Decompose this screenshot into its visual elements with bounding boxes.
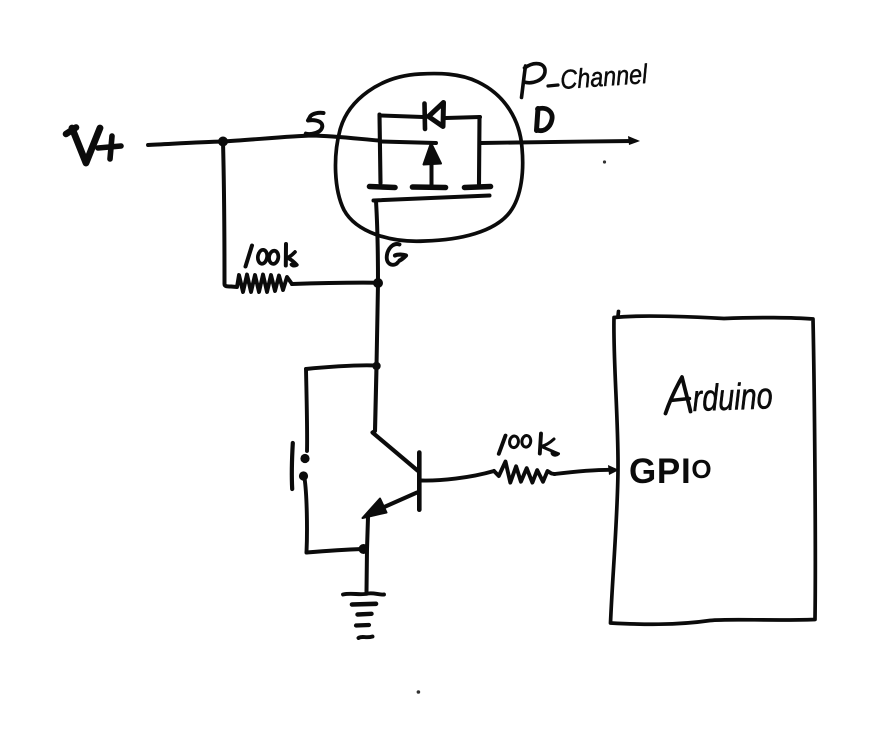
wire gate down from plate to R1 junction bbox=[376, 201, 378, 283]
wire R1 to gate junction bbox=[292, 283, 377, 284]
wire emitter down to switch bottom bbox=[367, 518, 368, 550]
label D (drain) bbox=[537, 108, 553, 130]
Q2 body diode triangle bbox=[429, 103, 444, 127]
svg-text:Channel: Channel bbox=[559, 59, 649, 95]
switch S1 upper contact dot bbox=[300, 454, 309, 463]
arrowhead drain wire bbox=[628, 136, 640, 145]
transistor Q1 base bar bbox=[417, 453, 422, 510]
junction emitter / switch bottom bbox=[359, 544, 369, 554]
switch S1 lower contact dot bbox=[299, 471, 308, 480]
Q2 source stub (left vertical) bbox=[380, 115, 381, 184]
switch S1 bottom wire bbox=[307, 549, 363, 553]
speck near drain wire bbox=[603, 160, 606, 163]
Q2 left channel contact bar bbox=[370, 187, 396, 188]
resistor R1 100k zigzag bbox=[231, 275, 292, 293]
Q2 gate plate bbox=[374, 196, 490, 201]
Q2 middle channel contact bar bbox=[413, 184, 446, 190]
transistor Q2 p-channel MOSFET enclosure circle bbox=[335, 74, 522, 242]
junction V+ rail / R1 drop bbox=[218, 137, 228, 147]
Q2 body diode cathode bar bbox=[422, 104, 427, 130]
transistor Q1 collector wire from gate node bbox=[373, 366, 418, 471]
label Arduino bbox=[666, 377, 691, 414]
Q2 drain stub (right vertical) bbox=[477, 117, 482, 184]
Q2 right channel contact bar bbox=[465, 187, 491, 188]
junction gate wire / switch top bbox=[372, 362, 380, 370]
svg-text:rduino: rduino bbox=[692, 375, 773, 419]
Q2 internal source-body wire bbox=[380, 142, 436, 144]
node V+ label bbox=[66, 128, 121, 164]
junction gate / R1 bbox=[373, 278, 383, 288]
wire R1 drop from V+ rail bbox=[223, 142, 231, 287]
Arduino box bbox=[611, 312, 816, 625]
Q2 body stub bbox=[430, 164, 434, 185]
wire V+ rail to MOSFET source bbox=[148, 136, 379, 146]
Q2 top wire right segment bbox=[446, 117, 480, 118]
arrowhead at GPIO pin bbox=[608, 465, 619, 475]
transistor Q1 emitter arrowhead bbox=[363, 499, 387, 519]
wire drain out bbox=[481, 141, 633, 143]
label G (gate) bbox=[387, 244, 406, 265]
wire gate junction down to switch top bbox=[377, 283, 379, 366]
resistor R2 100k zigzag bbox=[494, 462, 555, 483]
wire switch bottom to ground bbox=[365, 549, 370, 592]
wire R2 to GPIO pin bbox=[555, 470, 615, 474]
Q2 top wire left segment bbox=[380, 116, 423, 118]
label P-Channel bbox=[522, 64, 559, 98]
speck bottom center bbox=[417, 690, 421, 694]
transistor Q1 emitter wire bbox=[382, 493, 417, 509]
switch S1 actuator bar bbox=[290, 443, 295, 489]
label 100k (gate resistor) bbox=[246, 244, 297, 267]
label 100k (base resistor) bbox=[499, 434, 559, 456]
ground symbol bbox=[343, 593, 384, 638]
wire base to R2 bbox=[421, 471, 494, 481]
switch S1 left wire upper bbox=[306, 369, 307, 451]
label S (source) bbox=[306, 113, 324, 134]
switch S1 top wire bbox=[306, 365, 377, 369]
Q2 body arrow (points up to wire) bbox=[424, 143, 442, 165]
switch S1 left wire lower bbox=[305, 478, 307, 553]
